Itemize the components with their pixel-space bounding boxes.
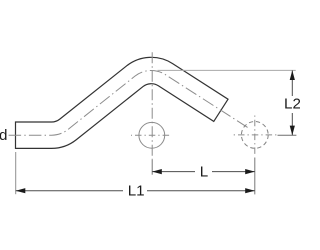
vertical centerline through peak and middle circle [151, 52, 153, 160]
middle circle horizontal crosshair [131, 134, 171, 136]
L1 left extension line [15, 152, 17, 194]
pipe crossover bend (outline) [16, 57, 229, 148]
svg-text:d: d [0, 127, 7, 144]
extension line x=152.2 (L dimension, left) [151, 160, 153, 175]
dimension L arrows [152, 169, 162, 174]
right circle horizontal crosshair [234, 134, 278, 136]
dimension L2 arrows [290, 70, 295, 80]
svg-text:L: L [200, 163, 208, 180]
pipe centerline (dash-dot along axis) [9, 71, 249, 136]
dimension L line [152, 171, 255, 173]
middle circle (crossing pipe section) [139, 122, 165, 148]
dimension L2 line [291, 70, 293, 135]
L2 top extension line (from peak) [158, 69, 296, 71]
dimension L1 arrows [16, 188, 26, 193]
right extension line x=254.8 (L and L1) [254, 158, 256, 195]
right circle vertical crosshair [254, 115, 256, 155]
svg-text:L1: L1 [128, 182, 145, 199]
right circle (pipe end section, hidden) [241, 121, 268, 148]
dimension L1 line [16, 190, 255, 192]
svg-text:L2: L2 [284, 96, 300, 113]
L2 bottom extension line [278, 134, 297, 136]
